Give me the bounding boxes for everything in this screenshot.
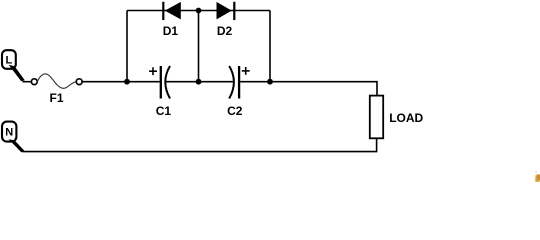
fuse F1 <box>31 74 82 105</box>
wire right riser of diode loop <box>269 11 271 82</box>
svg-text:L: L <box>6 54 13 66</box>
wire top rail <box>127 10 270 12</box>
svg-text:N: N <box>5 127 13 139</box>
wire fuse to node A <box>82 81 127 83</box>
terminal N <box>2 122 16 142</box>
svg-text:LOAD: LOAD <box>389 111 423 125</box>
wire N lead diagonal <box>9 139 25 152</box>
svg-text:C1: C1 <box>156 104 172 118</box>
resistor LOAD <box>370 96 424 139</box>
wire left riser of diode loop <box>126 11 128 82</box>
diode D1 <box>163 2 181 38</box>
svg-text:D2: D2 <box>217 24 233 38</box>
diode D2 <box>217 2 235 38</box>
node A junction dot <box>124 79 130 85</box>
node C junction dot (between C1 and C2) <box>196 79 202 85</box>
wire L lead diagonal <box>9 65 32 82</box>
wire node A to C1 <box>127 81 160 83</box>
node D junction dot <box>267 79 273 85</box>
capacitor C1 <box>149 66 171 118</box>
svg-text:D1: D1 <box>163 24 179 38</box>
svg-text:C2: C2 <box>227 104 243 118</box>
terminal L <box>2 50 16 69</box>
wire node D to load corner <box>270 82 377 96</box>
wire C1 to node C <box>166 81 199 83</box>
svg-text:F1: F1 <box>49 91 63 105</box>
node B junction dot (between D1 and D2) <box>196 8 202 14</box>
wire C2 to node D <box>240 81 270 83</box>
wire load bottom to bottom rail <box>23 138 377 151</box>
wire middle riser node B to node C <box>198 11 200 82</box>
capacitor C2 <box>227 66 250 118</box>
decorative orange mark (cut-off logo, bottom right) <box>535 171 540 182</box>
wire node C to C2 <box>199 81 234 83</box>
